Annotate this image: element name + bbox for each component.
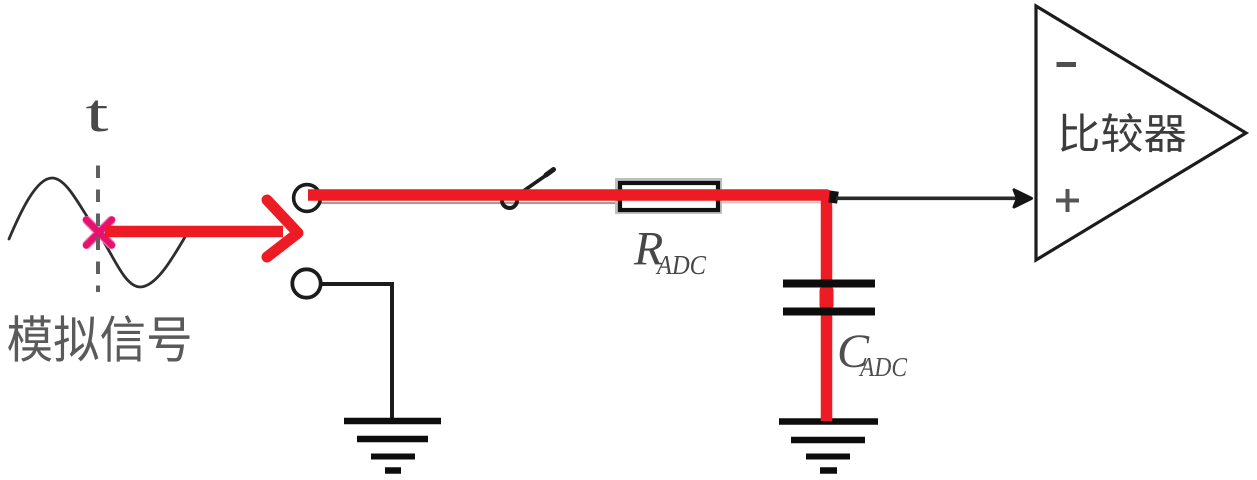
switch lower terminal [292, 269, 320, 297]
sample point X marker [86, 220, 112, 246]
label 比较器 (comparator) [1061, 113, 1186, 152]
switch lever [522, 173, 550, 193]
comparator U1 (triangle) [1036, 6, 1246, 260]
comparator minus input [1057, 62, 1077, 67]
ground (below capacitor) [779, 422, 878, 471]
wire (gray, terminal to resistor under red overlay) [320, 202, 618, 204]
red arrow (signal flow into sampler) [105, 200, 298, 257]
junction node [828, 191, 839, 204]
sine wave (analog input signal) [9, 178, 185, 287]
wire (lower terminal to ground) [320, 284, 392, 420]
arrowhead into comparator [1014, 190, 1032, 207]
svg-text:ADC: ADC [655, 250, 707, 280]
comparator plus input [1056, 189, 1079, 212]
ground (below switch lower terminal) [344, 421, 441, 471]
svg-text:ADC: ADC [858, 352, 908, 382]
red signal path (terminal through switch and R_ADC, down through C_ADC to ground) [308, 195, 827, 421]
svg-text:t: t [86, 83, 109, 143]
capacitor C_ADC plates [783, 280, 875, 288]
resistor R_ADC [620, 183, 718, 210]
wire (junction to comparator) [836, 197, 1018, 201]
switch upper terminal [294, 185, 321, 212]
resistor R_ADC shadow [615, 178, 722, 214]
dashed sampling line [96, 166, 100, 293]
red signal path (bulge between capacitor plates) [820, 291, 834, 305]
label 模拟信号 (analog signal) [8, 315, 189, 362]
switch contact hook [502, 201, 517, 209]
wire (faint, resistor to junction under red overlay) [722, 202, 821, 204]
